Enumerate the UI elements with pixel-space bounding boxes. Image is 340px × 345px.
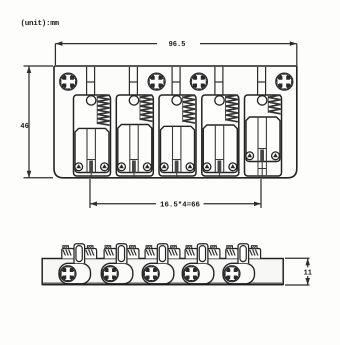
- side string groove block U3: [157, 244, 168, 264]
- bridge plate (side view): [42, 259, 283, 285]
- mounting screw 1: [60, 73, 77, 90]
- height screws S3: [160, 163, 168, 171]
- saddle housing S3: [159, 95, 196, 176]
- side string groove block U2: [116, 244, 127, 264]
- string groove U4: [199, 246, 205, 262]
- side right ridge U2: [127, 249, 139, 259]
- side intonation screw U3: [143, 266, 159, 282]
- intonation spring S3: [183, 95, 195, 123]
- string end S4: [218, 161, 222, 173]
- dim string spacing line: [90, 203, 156, 205]
- side intonation screw U2: [102, 266, 118, 282]
- side left ridge U2: [104, 249, 116, 259]
- saddle housing S5: [245, 95, 282, 176]
- side right ridge U5: [248, 249, 260, 259]
- intonation spring S4: [226, 95, 238, 122]
- saddle block S1: [75, 128, 109, 172]
- string channel S1: [86, 128, 88, 172]
- svg-text:96.5: 96.5: [169, 41, 186, 49]
- dim string spacing extension lines: [89, 179, 91, 208]
- string channel S5: [257, 117, 259, 162]
- height screws S2: [118, 163, 126, 171]
- string channel S4: [214, 125, 216, 173]
- dim 46 extension lines: [24, 65, 54, 67]
- mounting screw 3: [190, 73, 207, 90]
- saddle housing S1: [74, 95, 111, 176]
- string slot S5: [257, 67, 259, 95]
- dim 11 line: [307, 258, 309, 267]
- string line below S3: [176, 173, 178, 178]
- string groove U3: [159, 246, 165, 262]
- string channel S3: [172, 126, 174, 172]
- dim 46 line: [28, 66, 30, 178]
- svg-text:16.5*4=66: 16.5*4=66: [160, 201, 200, 209]
- mounting screw 2: [148, 73, 165, 90]
- string groove U2: [118, 246, 124, 262]
- height screws S1: [75, 163, 83, 171]
- string groove U1: [76, 246, 82, 262]
- side right ridge U1: [84, 249, 96, 259]
- side left ridge U3: [145, 249, 157, 259]
- dim 11 extension lines: [285, 257, 310, 259]
- saddle block S2: [118, 125, 152, 173]
- string slot S3: [171, 67, 173, 95]
- intonation screw head S4: [215, 96, 224, 105]
- side saddle body U5: [223, 263, 255, 284]
- intonation spring S5: [268, 95, 280, 114]
- string line below S1: [90, 173, 92, 178]
- side left ridge U5: [226, 249, 238, 259]
- side left ridge U4: [185, 249, 197, 259]
- side intonation screw U1: [60, 266, 76, 282]
- svg-text:11: 11: [304, 270, 312, 278]
- intonation screw head S3: [172, 96, 181, 105]
- mounting screw 4: [276, 73, 293, 90]
- intonation spring S1: [97, 95, 109, 125]
- string channel S2: [129, 125, 131, 173]
- string end S3: [175, 161, 179, 173]
- intonation screw head S5: [258, 96, 267, 105]
- side left ridge U1: [62, 249, 74, 259]
- saddle block S5: [246, 117, 280, 162]
- side right ridge U3: [168, 249, 180, 259]
- saddle block S3: [161, 126, 195, 172]
- bridge base plate (top view): [54, 66, 297, 178]
- saddle block S4: [203, 125, 237, 173]
- dim 96.5 line: [55, 43, 157, 45]
- string end S2: [132, 161, 136, 173]
- string groove U5: [240, 246, 246, 262]
- height screws S4: [203, 163, 211, 171]
- side saddle body U2: [101, 263, 133, 284]
- side string groove block U5: [238, 244, 249, 264]
- intonation spring S2: [140, 95, 152, 121]
- side intonation screw U4: [183, 266, 199, 282]
- string line below S5: [261, 162, 263, 178]
- side plate bottom edge: [42, 283, 283, 285]
- side saddle body U4: [182, 263, 214, 284]
- string end S1: [89, 161, 93, 173]
- svg-text:46: 46: [20, 123, 28, 131]
- side string groove block U4: [197, 244, 208, 264]
- string slot S2: [128, 67, 130, 95]
- side saddle body U3: [142, 263, 174, 284]
- intonation screw head S1: [87, 96, 96, 105]
- string line below S2: [133, 173, 135, 178]
- dim 96.5 extension lines: [54, 44, 56, 65]
- string slot S1: [86, 67, 88, 95]
- svg-text:(unit):mm: (unit):mm: [21, 20, 60, 28]
- side saddle body U1: [59, 263, 91, 284]
- side intonation screw U5: [224, 266, 240, 282]
- intonation screw head S2: [129, 96, 138, 105]
- string end S5: [260, 150, 264, 162]
- saddle housing S4: [202, 95, 239, 176]
- string line below S4: [219, 173, 221, 178]
- side right ridge U4: [208, 249, 220, 259]
- height screws S5: [246, 152, 254, 160]
- saddle housing S2: [116, 95, 153, 176]
- side string groove block U1: [74, 244, 85, 264]
- string slot S4: [214, 67, 216, 95]
